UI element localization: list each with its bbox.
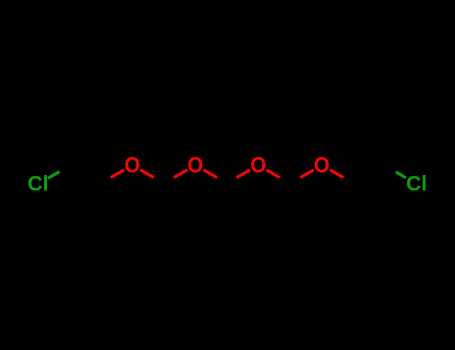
svg-text:Cl: Cl <box>28 173 49 196</box>
svg-text:O: O <box>124 154 140 178</box>
svg-text:O: O <box>314 154 330 178</box>
svg-text:O: O <box>188 154 204 178</box>
svg-text:Cl: Cl <box>406 173 427 196</box>
svg-text:O: O <box>250 154 266 178</box>
